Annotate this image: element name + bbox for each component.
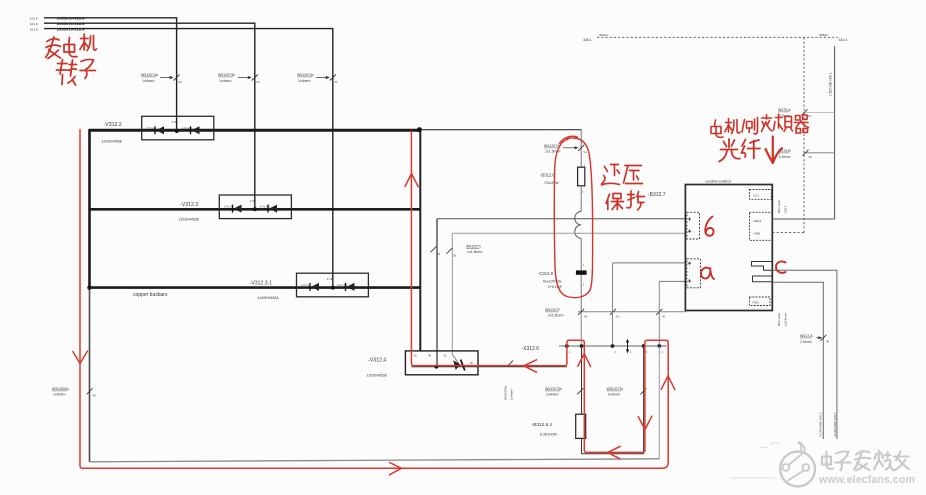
svg-text:98: 98 bbox=[808, 114, 812, 118]
svg-text:6.3k/100W: 6.3k/100W bbox=[540, 433, 557, 437]
svg-text:101.8: 101.8 bbox=[30, 28, 38, 32]
svg-text:28: 28 bbox=[414, 354, 418, 358]
diode D1 of V312.3 bbox=[234, 205, 242, 213]
wire resistor down bbox=[581, 438, 583, 453]
busbar top (DC+) bbox=[89, 129, 419, 132]
char ce bbox=[742, 120, 745, 133]
svg-text:-B312.6: -B312.6 bbox=[540, 172, 555, 177]
red handwriting generator rotor bbox=[46, 34, 97, 85]
svg-text:98: 98 bbox=[826, 340, 830, 344]
svg-text:56: 56 bbox=[444, 354, 448, 358]
wire red left loop bbox=[80, 130, 668, 469]
wire U-pin2 horizontal bbox=[452, 232, 685, 234]
char bao bbox=[606, 194, 610, 204]
svg-text:18: 18 bbox=[470, 361, 474, 365]
svg-text:1x4mm²: 1x4mm² bbox=[53, 393, 66, 397]
wire coil to capacitor bbox=[580, 238, 582, 270]
svg-text:1x1.5mm²: 1x1.5mm² bbox=[467, 250, 483, 254]
svg-text:11030/44538: 11030/44538 bbox=[102, 140, 122, 144]
terminal row line bbox=[559, 345, 667, 347]
svg-text:-B312.6.1: -B312.6.1 bbox=[532, 422, 553, 428]
svg-text:fibre optic: fibre optic bbox=[777, 199, 781, 213]
svg-text:1.5mm²: 1.5mm² bbox=[800, 340, 813, 344]
terminal 6 bbox=[657, 344, 661, 348]
svg-text:-V312.3.1: -V312.3.1 bbox=[250, 280, 273, 286]
right side wiring bbox=[583, 33, 847, 439]
svg-text:W312074b: W312074b bbox=[218, 73, 235, 77]
svg-text:copper busbars: copper busbars bbox=[133, 292, 168, 298]
wire bottom link bbox=[582, 453, 644, 455]
svg-text:GND: GND bbox=[754, 232, 762, 236]
svg-text:48: 48 bbox=[437, 252, 441, 256]
svg-text:W312071: W312071 bbox=[466, 245, 481, 249]
svg-text:1 DC-UB 100.1: 1 DC-UB 100.1 bbox=[829, 72, 833, 96]
wire rotor phase 2 bbox=[44, 23, 255, 209]
wire rotor phase 3 bbox=[44, 29, 333, 288]
svg-text:2x1.5mm²: 2x1.5mm² bbox=[548, 314, 564, 318]
wm char shao bbox=[875, 454, 877, 460]
svg-text:1x4mm²: 1x4mm² bbox=[546, 393, 559, 397]
wire control pin4 horizontal bbox=[659, 280, 685, 282]
svg-text:1x4mm²: 1x4mm² bbox=[219, 79, 232, 83]
red arrow up x412 bbox=[405, 174, 418, 187]
wire RC branch vertical top bbox=[580, 130, 582, 168]
svg-text:4 CAN-DBC 100.1: 4 CAN-DBC 100.1 bbox=[833, 412, 837, 437]
svg-text:66: 66 bbox=[335, 80, 339, 84]
red letter C bbox=[776, 261, 786, 272]
svg-text:345.1: 345.1 bbox=[583, 38, 592, 42]
svg-text:-V312.3: -V312.3 bbox=[180, 202, 198, 208]
diode D1 of V312.3.1 bbox=[311, 283, 319, 291]
resistor B312.6 bbox=[578, 167, 585, 186]
cable label W312074c bbox=[297, 73, 338, 84]
char dian2 bbox=[715, 120, 716, 126]
svg-text:100.1: 100.1 bbox=[784, 205, 788, 213]
svg-text:101.6: 101.6 bbox=[30, 22, 38, 26]
svg-text:W312074a: W312074a bbox=[141, 73, 158, 77]
svg-text:66: 66 bbox=[179, 80, 183, 84]
wm char dian bbox=[822, 457, 831, 465]
svg-text:2x35x10-318.8: 2x35x10-318.8 bbox=[57, 21, 85, 26]
red handwriting overvoltage protection bbox=[602, 165, 645, 211]
svg-text:11030/46538: 11030/46538 bbox=[367, 374, 387, 378]
svg-text:7Gx/20W: 7Gx/20W bbox=[544, 181, 559, 185]
svg-text:101.4: 101.4 bbox=[30, 17, 38, 21]
watermark logo bbox=[780, 442, 815, 487]
wire terminal5 down bbox=[643, 346, 645, 454]
wire vertical x581 to terminal bbox=[580, 312, 582, 344]
svg-text:-V312.4: -V312.4 bbox=[368, 357, 386, 363]
svg-text:48: 48 bbox=[428, 354, 432, 358]
diode module V312.3.1 bbox=[133, 273, 368, 300]
svg-text:41: 41 bbox=[616, 315, 620, 319]
svg-text:58: 58 bbox=[453, 254, 457, 258]
svg-text:1x1.5mm²: 1x1.5mm² bbox=[545, 150, 561, 154]
svg-text:W312070s: W312070s bbox=[504, 385, 508, 400]
wire U-pin1 horizontal bbox=[437, 218, 685, 220]
char pin bbox=[776, 117, 783, 119]
diode D2 of V312.3.1 bbox=[347, 283, 355, 291]
red letter alpha bbox=[701, 268, 714, 280]
diode D2 of V312.2 bbox=[192, 126, 200, 134]
svg-text:1x0.5mm²: 1x0.5mm² bbox=[784, 313, 788, 326]
red arrow left x613 bbox=[608, 446, 621, 459]
svg-text:2 K1 A: 2 K1 A bbox=[301, 283, 309, 287]
resistor B312.6.1 bbox=[576, 414, 586, 438]
red arrow up x584 bbox=[578, 354, 591, 367]
svg-text:1 NF: 1 NF bbox=[172, 120, 179, 124]
dashed bus 345.1 bbox=[597, 36, 838, 38]
polarity symbol bbox=[627, 340, 629, 353]
svg-text:W312074c: W312074c bbox=[297, 73, 314, 77]
wire vertical x659 bbox=[658, 281, 660, 344]
char qi bbox=[796, 116, 801, 121]
busbar bottom bbox=[89, 286, 420, 289]
wire node line y312 bbox=[578, 311, 686, 313]
wire capacitor down bbox=[580, 275, 582, 312]
svg-text:1x4mm²: 1x4mm² bbox=[608, 393, 621, 397]
wm char zi bbox=[836, 452, 849, 454]
wire resistor to coil bbox=[580, 186, 582, 212]
module LED/GND dashed bbox=[750, 212, 773, 240]
connector C upper bracket bbox=[752, 262, 773, 271]
svg-text:2+6.1/uF: 2+6.1/uF bbox=[548, 285, 562, 289]
svg-text:-B312.7: -B312.7 bbox=[648, 192, 666, 198]
diode D1 of V312.2 bbox=[156, 126, 164, 134]
terminal 1 bbox=[565, 344, 569, 348]
svg-text:-V312.2: -V312.2 bbox=[104, 122, 122, 128]
cable label W312070s rotated bbox=[507, 361, 513, 367]
wire node inside V312.4 bbox=[411, 366, 566, 368]
terminal 5 bbox=[642, 344, 646, 348]
wire terminal2 down bbox=[581, 346, 583, 414]
svg-text:98: 98 bbox=[809, 155, 813, 159]
capacitor C312.6 bbox=[576, 270, 587, 274]
connector X2 dashed bbox=[687, 259, 701, 288]
svg-text:PW1: PW1 bbox=[753, 301, 760, 305]
red ellipse overvoltage circle bbox=[554, 136, 592, 297]
wire DC-UB into box bbox=[772, 218, 834, 220]
connector X1 dashed bbox=[687, 212, 700, 239]
svg-text:11030/44538: 11030/44538 bbox=[179, 218, 199, 222]
RC snubber branch bbox=[538, 130, 587, 312]
inductor coil bbox=[575, 212, 581, 239]
char hu bbox=[628, 194, 635, 196]
diode module V312.3 bbox=[179, 195, 292, 222]
svg-text:5x±10%Vdc: 5x±10%Vdc bbox=[543, 280, 562, 284]
wire CAN B bbox=[772, 282, 823, 439]
char ya bbox=[625, 165, 642, 167]
svg-text:fibre optic: fibre optic bbox=[777, 312, 781, 326]
dashed vertical x804 bbox=[803, 37, 805, 232]
svg-text:66: 66 bbox=[257, 80, 261, 84]
svg-text:2x35x10-318.8: 2x35x10-318.8 bbox=[57, 26, 85, 31]
red arrow down fibre bbox=[772, 137, 774, 160]
svg-text:3PE2s: 3PE2s bbox=[599, 33, 608, 37]
svg-text:LED3: LED3 bbox=[754, 219, 762, 223]
svg-text:1 NF: 1 NF bbox=[250, 199, 257, 203]
module LC1 dashed bbox=[750, 190, 772, 200]
wire top thin to RC branch bbox=[419, 129, 581, 131]
terminal strip X312.6 bbox=[522, 339, 667, 354]
photo smudge bbox=[730, 443, 781, 478]
wire terminal6 down to return bbox=[658, 346, 660, 459]
char bian bbox=[762, 117, 772, 119]
svg-text:48: 48 bbox=[584, 315, 588, 319]
char zhuan bbox=[58, 63, 68, 65]
terminal 2 bbox=[580, 344, 584, 348]
char guang bbox=[728, 139, 730, 148]
wire main vertical collector bbox=[419, 130, 421, 352]
busbar middle bbox=[89, 208, 420, 211]
svg-text:W312073s: W312073s bbox=[545, 387, 562, 391]
wire left vertical busbar bbox=[88, 129, 91, 288]
char ji bbox=[81, 38, 89, 40]
diode D2 of V312.3 bbox=[269, 205, 277, 213]
svg-text:2x30R/4483A: 2x30R/4483A bbox=[258, 296, 280, 300]
cable label W312074b bbox=[218, 73, 260, 84]
svg-text:-X312.6: -X312.6 bbox=[522, 346, 540, 352]
red arrow up x668 bbox=[661, 376, 675, 390]
wire vertical to V312.4 pin56 bbox=[451, 233, 453, 354]
dashed into box GND bbox=[772, 232, 804, 234]
connector C lower bracket bbox=[753, 276, 773, 282]
char dian bbox=[68, 38, 71, 44]
svg-text:3 CAN-DBC 100.1: 3 CAN-DBC 100.1 bbox=[819, 412, 823, 437]
svg-text:www.elecfans.com: www.elecfans.com bbox=[818, 474, 915, 486]
red arrow left x529 bbox=[524, 360, 537, 373]
svg-text:5a: 5a bbox=[584, 150, 588, 154]
svg-text:A K1 A 1: A K1 A 1 bbox=[260, 205, 271, 209]
junction node top bbox=[417, 127, 422, 132]
svg-text:1x4mm²: 1x4mm² bbox=[142, 79, 155, 83]
svg-text:W317-A: W317-A bbox=[800, 334, 813, 338]
svg-text:central control: central control bbox=[706, 178, 731, 183]
red handwriting optical fibre bbox=[719, 137, 782, 164]
cable label W312074a bbox=[141, 73, 182, 151]
wm char fa bbox=[856, 451, 870, 454]
svg-text:46: 46 bbox=[662, 315, 666, 319]
junction node left busbar bbox=[87, 285, 91, 289]
wire control pin3 horizontal bbox=[613, 262, 686, 264]
svg-text:W312072: W312072 bbox=[545, 308, 560, 312]
red handwriting motor-side inverter bbox=[711, 114, 809, 137]
red arrow right bottom bbox=[390, 463, 402, 475]
wire left vertical return bbox=[89, 288, 91, 462]
diode of V312.4 bbox=[452, 354, 458, 363]
svg-text:2 K1 A: 2 K1 A bbox=[224, 205, 232, 209]
wire bottom return gray bbox=[90, 459, 660, 462]
wire DC-UB vertical bbox=[834, 46, 836, 219]
discharge branch bbox=[52, 346, 659, 462]
char ji2 bbox=[726, 122, 732, 124]
module PWR dashed bbox=[750, 297, 771, 306]
char xian bbox=[742, 140, 746, 147]
diode module V312.2 bbox=[102, 116, 214, 143]
red highlighted current path bbox=[73, 130, 675, 475]
svg-text:W312074: W312074 bbox=[544, 144, 559, 148]
terminal 3 bbox=[611, 344, 615, 348]
svg-text:48: 48 bbox=[93, 394, 97, 398]
wire rotor phase 1 bbox=[44, 18, 177, 131]
svg-text:341.4: 341.4 bbox=[839, 38, 848, 42]
wire vertical to V312.4 pin48 bbox=[436, 219, 438, 367]
svg-text:1x4mm²: 1x4mm² bbox=[298, 79, 311, 83]
char zi bbox=[81, 60, 94, 62]
red letter 6 bbox=[705, 217, 713, 236]
svg-text:W312072s: W312072s bbox=[607, 387, 624, 391]
diode module V312.4 bbox=[367, 351, 567, 400]
svg-text:2 K1 A: 2 K1 A bbox=[146, 126, 154, 130]
svg-text:W375-A: W375-A bbox=[778, 108, 791, 112]
svg-text:1 NF: 1 NF bbox=[327, 277, 334, 281]
control unit B312.7 bbox=[648, 178, 788, 326]
svg-text:1x4mm²: 1x4mm² bbox=[510, 389, 514, 400]
watermark text elecfans bbox=[822, 451, 909, 471]
svg-text:-C312.6: -C312.6 bbox=[538, 271, 554, 276]
svg-text:3PE2s: 3PE2s bbox=[819, 33, 828, 37]
char guo bbox=[611, 164, 619, 166]
wire CAN A bbox=[772, 270, 837, 439]
svg-text:2x35x10-318.8: 2x35x10-318.8 bbox=[57, 16, 85, 21]
wire vertical x612 bbox=[612, 263, 614, 344]
wm char you bbox=[894, 455, 909, 457]
red arrow down x645 bbox=[638, 416, 652, 429]
svg-text:LC1: LC1 bbox=[754, 194, 760, 198]
wires control box left group1 bbox=[431, 219, 687, 367]
svg-text:W312063s: W312063s bbox=[52, 387, 69, 391]
red arrow down left bbox=[73, 351, 88, 364]
svg-text:A K1 A 1: A K1 A 1 bbox=[337, 283, 348, 287]
char fa bbox=[47, 39, 59, 42]
svg-text:0.5mm²: 0.5mm² bbox=[779, 155, 792, 159]
